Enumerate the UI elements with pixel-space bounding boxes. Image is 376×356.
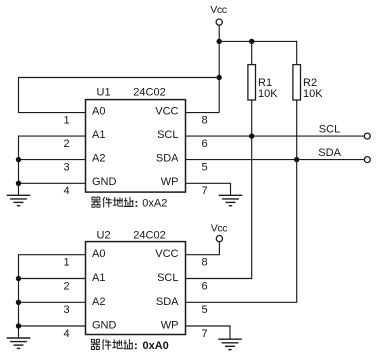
svg-text:A2: A2: [92, 152, 105, 164]
svg-text:8: 8: [202, 114, 208, 126]
svg-text:3: 3: [64, 161, 70, 173]
wire U2 pin1 A0 to left bus: [19, 255, 86, 338]
terminal SCL: [364, 133, 370, 139]
svg-text:VCC: VCC: [155, 105, 178, 117]
wire U1 pin8 VCC to Vcc vertical: [186, 112, 220, 114]
svg-text:WP: WP: [161, 320, 179, 332]
svg-text:SCL: SCL: [157, 129, 178, 141]
IC U2 24C02: [86, 242, 186, 335]
junction U1 GND on left bus: [16, 181, 21, 186]
junction SCL / R1: [249, 133, 254, 138]
wire U1 A0 loop to Vcc (left top): [19, 78, 220, 113]
wire top rail to R2: [219, 40, 297, 42]
wire U2 pin7 WP to ground: [186, 326, 231, 339]
wire R1 top lead: [251, 41, 253, 64]
power symbol Vcc (U2): [211, 222, 227, 241]
ground (U2 left bus): [7, 338, 31, 348]
svg-text:WP: WP: [161, 176, 179, 188]
svg-text:4: 4: [64, 185, 70, 197]
wire R2 bottom lead down to SDA line: [296, 100, 298, 160]
terminal SDA: [364, 157, 370, 163]
svg-text:Vcc: Vcc: [210, 4, 226, 16]
svg-text:A0: A0: [92, 248, 105, 260]
svg-text:U1: U1: [97, 86, 111, 98]
junction R1 top lead on rail: [249, 39, 254, 44]
wire Vcc vertical to U1 VCC pin row: [218, 25, 220, 112]
svg-text:6: 6: [202, 280, 208, 292]
svg-text:Vcc: Vcc: [211, 222, 227, 234]
wire U1 pin7 WP to ground: [186, 183, 231, 195]
svg-text:1: 1: [64, 257, 70, 269]
svg-text:SCL: SCL: [319, 124, 340, 136]
svg-text:0xA2: 0xA2: [142, 198, 167, 210]
svg-text:24C02: 24C02: [133, 230, 165, 242]
junction U2 GND on left bus: [16, 323, 21, 328]
svg-text:2: 2: [64, 280, 70, 292]
svg-text:6: 6: [202, 138, 208, 150]
svg-text:U2: U2: [97, 230, 111, 242]
wire U2 pin2 A1: [19, 278, 86, 280]
wire U1 pin4 GND: [19, 182, 86, 184]
svg-text:24C02: 24C02: [133, 86, 165, 98]
svg-text:SDA: SDA: [156, 152, 179, 164]
svg-text:A1: A1: [92, 129, 105, 141]
resistor R1: [248, 65, 256, 100]
wire U2 pin4 GND: [19, 325, 86, 327]
label U2 device address caption 器件地址：0xA0: [91, 339, 169, 352]
power symbol Vcc (top): [210, 4, 226, 25]
svg-text:VCC: VCC: [155, 248, 178, 260]
label U1 device address caption 器件地址：0xA2: [91, 197, 167, 210]
svg-text:SDA: SDA: [318, 147, 341, 159]
ground (U1 WP): [219, 195, 243, 205]
svg-text:0xA0: 0xA0: [143, 340, 169, 352]
wire U2 pin6 SCL up to SCL line: [186, 136, 252, 278]
ground (U1 left bus): [7, 195, 31, 205]
svg-text:7: 7: [202, 185, 208, 197]
svg-text:8: 8: [202, 257, 208, 269]
ground (U2 WP): [218, 339, 242, 349]
svg-text:5: 5: [202, 161, 208, 173]
wire U2 pin8 VCC to Vcc symbol: [186, 242, 220, 255]
IC U1 24C02: [86, 100, 186, 193]
junction U2 A1 on left bus: [16, 276, 21, 281]
svg-text:GND: GND: [92, 320, 117, 332]
wire U1 pin3 A2: [19, 159, 86, 161]
wire U2 pin3 A2: [19, 301, 86, 303]
svg-text:10K: 10K: [303, 88, 323, 100]
junction U2 A2 on left bus: [16, 300, 21, 305]
svg-text:A1: A1: [92, 272, 105, 284]
wire SDA line from U1 pin5 to terminal: [186, 159, 365, 161]
wire SCL line from U1 pin6 to terminal: [186, 135, 365, 137]
junction A0 loop on Vcc vertical: [217, 75, 222, 80]
wire R2 top lead: [296, 41, 298, 65]
svg-text:A2: A2: [92, 296, 105, 308]
wire U1 pin2 A1 to left bus: [19, 136, 86, 195]
svg-text:7: 7: [202, 328, 208, 340]
wire R1 bottom lead down to SCL line: [251, 100, 253, 136]
svg-text:3: 3: [64, 304, 70, 316]
svg-text:5: 5: [202, 304, 208, 316]
svg-text:4: 4: [64, 328, 70, 340]
svg-text:SCL: SCL: [157, 272, 178, 284]
wire U2 pin5 SDA up to SDA line: [186, 160, 297, 303]
svg-text:10K: 10K: [258, 88, 278, 100]
svg-text:A0: A0: [92, 105, 105, 117]
junction U1 A2 on left bus: [16, 157, 21, 162]
junction SDA / R2: [294, 157, 299, 162]
resistor R2: [293, 65, 301, 100]
svg-text:2: 2: [64, 138, 70, 150]
junction Vcc / top rail: [217, 39, 222, 44]
svg-text:GND: GND: [92, 176, 117, 188]
svg-text:SDA: SDA: [156, 296, 179, 308]
svg-text:1: 1: [64, 114, 70, 126]
